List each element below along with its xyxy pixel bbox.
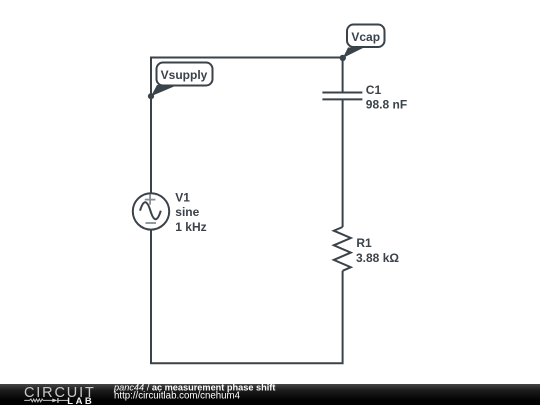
svg-text:Vsupply: Vsupply	[161, 68, 208, 82]
svg-text:LAB: LAB	[67, 396, 93, 405]
svg-text:3.88 kΩ: 3.88 kΩ	[356, 251, 399, 265]
svg-text:C1: C1	[366, 83, 382, 97]
svg-text:98.8 nF: 98.8 nF	[366, 97, 407, 111]
svg-text:Vcap: Vcap	[351, 30, 380, 44]
svg-text:http://circuitlab.com/cnehum4: http://circuitlab.com/cnehum4	[114, 391, 241, 402]
svg-text:sine: sine	[175, 205, 199, 219]
svg-text:R1: R1	[356, 236, 372, 250]
svg-text:V1: V1	[175, 190, 190, 204]
svg-text:1 kHz: 1 kHz	[175, 220, 206, 234]
